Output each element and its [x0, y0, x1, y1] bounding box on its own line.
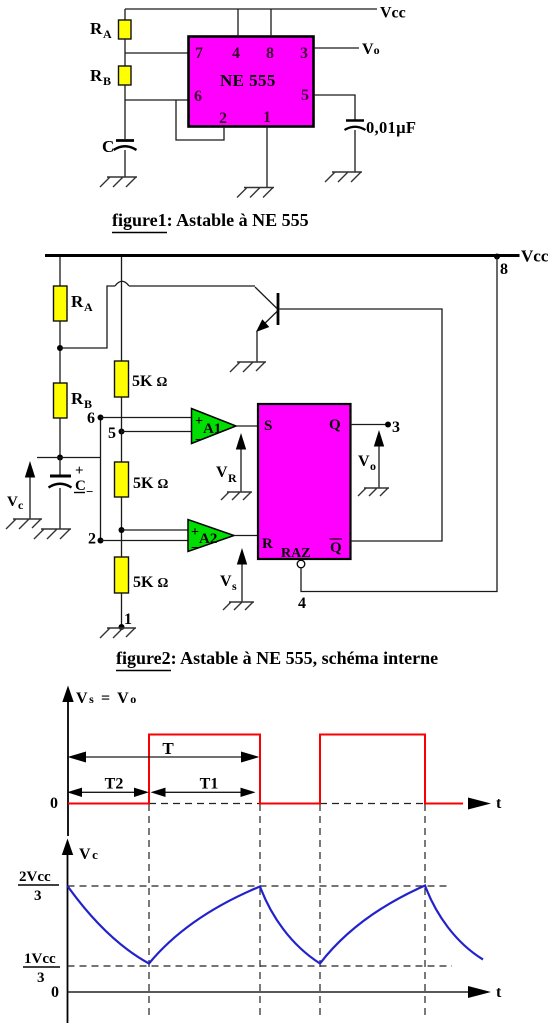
wire node6 to pin 6: [125, 99, 189, 101]
voltage arrow Vo fig2: [378, 445, 380, 488]
wire pin 5 to cap: [314, 95, 355, 120]
resistor 5K 2: [115, 462, 129, 497]
wire Q output to node 3: [351, 424, 389, 426]
svg-text:−: −: [195, 433, 203, 448]
ground below Vs: [223, 602, 254, 610]
svg-text:8: 8: [266, 45, 274, 62]
node 5 dot: [119, 429, 125, 435]
svg-text:T1: T1: [200, 776, 219, 793]
ground below Vc arrow: [6, 519, 42, 529]
svg-text:1: 1: [263, 109, 271, 126]
svg-text:t: t: [496, 795, 502, 812]
dashed vertical t1: [148, 804, 150, 1016]
resistor RB fig2: [54, 383, 68, 418]
svg-text:8: 8: [500, 261, 508, 278]
wire pin 8 to rail: [270, 9, 272, 37]
svg-text:R: R: [228, 471, 237, 485]
dashed baseline segments graph1: [149, 803, 425, 805]
axis Y graph1: [67, 694, 69, 836]
axis X arrow graph1: [468, 798, 491, 810]
wire Qbar to transistor base: [280, 309, 443, 541]
voltage arrow VR: [240, 447, 242, 492]
wire pin 4 to rail: [237, 9, 239, 37]
ground below C fig1: [100, 177, 137, 187]
svg-text:C: C: [75, 478, 86, 494]
wire RA to RB: [124, 39, 126, 66]
wire C to ground: [124, 150, 126, 177]
dashed vertical t2: [259, 804, 261, 1016]
dimension arrow T: [80, 756, 248, 758]
svg-text:5: 5: [108, 425, 116, 442]
wire rail to RA: [124, 9, 126, 20]
svg-text:V: V: [216, 464, 228, 481]
svg-text:Q: Q: [330, 540, 342, 556]
latch box RS: [258, 404, 351, 559]
svg-text:2: 2: [88, 531, 96, 548]
dashed level 1Vcc/3: [68, 965, 453, 967]
wire Vcc rail fig2: [45, 254, 520, 257]
svg-text:5K Ω: 5K Ω: [133, 574, 168, 591]
svg-text:0: 0: [51, 984, 59, 1001]
wire RAZ pin 4 to rail: [301, 257, 497, 592]
resistor 5K 1: [115, 361, 129, 397]
wire 0,01uF to ground: [354, 130, 356, 172]
wire 5K2 to 5K3: [121, 497, 123, 557]
svg-text:0,01µF: 0,01µF: [366, 118, 416, 137]
svg-text:1: 1: [124, 611, 132, 628]
wire 5K3 to ground node 1: [121, 593, 123, 627]
svg-text:V: V: [7, 494, 18, 510]
wire RA to RB fig2: [59, 321, 61, 383]
node 1 dot: [119, 624, 125, 630]
wire node7 to pin 7: [125, 52, 189, 54]
dimension arrow T1: [159, 791, 247, 793]
svg-text:+: +: [191, 525, 199, 540]
axis Y graph2: [67, 848, 69, 1023]
wire pin 1 to ground: [266, 127, 268, 187]
svg-text:S: S: [264, 418, 272, 434]
svg-text:o: o: [370, 459, 376, 473]
svg-text:+: +: [75, 463, 84, 479]
wire C to ground fig2: [59, 488, 61, 529]
svg-text:Q: Q: [329, 417, 341, 433]
resistor RA fig2: [54, 286, 68, 321]
svg-text:7: 7: [195, 45, 203, 62]
resistor 5K 3: [115, 557, 129, 593]
svg-text:NE 555: NE 555: [220, 71, 276, 90]
svg-text:s: s: [232, 579, 237, 593]
transistor Q1: [277, 293, 280, 325]
op-amp comparator A2: [188, 520, 234, 552]
dimension arrow T2: [76, 791, 140, 793]
svg-text:A2: A2: [199, 531, 217, 547]
svg-text:R: R: [71, 389, 84, 408]
voltage arrow Vs: [241, 562, 243, 602]
dashed vertical t3: [319, 804, 321, 1016]
svg-text:t: t: [496, 984, 502, 1001]
wire node6 to node2 vertical: [100, 418, 102, 541]
svg-text:R: R: [90, 19, 103, 38]
wire cap node horizontal: [37, 457, 101, 459]
wire A2 output to R: [234, 535, 258, 537]
svg-text:Vo: Vo: [362, 41, 380, 58]
svg-text:5K Ω: 5K Ω: [132, 373, 167, 390]
op-amp comparator A1: [192, 409, 237, 444]
node pin 8 junction dot: [494, 254, 500, 260]
svg-text:5: 5: [301, 87, 309, 104]
node 2 dot: [98, 538, 104, 544]
wire Vcc rail fig1: [125, 8, 377, 10]
svg-text:6: 6: [194, 88, 202, 105]
svg-text:3: 3: [37, 970, 45, 986]
node cap junction dot: [57, 455, 63, 461]
svg-text:V: V: [220, 573, 232, 590]
wire discharge branch to transistor collector: [60, 281, 255, 348]
node 3 dot: [385, 422, 391, 428]
waveform Vc exponential: [68, 886, 484, 964]
IC NE555 U1: [189, 37, 314, 127]
wire divider low to A2 plus: [122, 529, 189, 531]
wire pin 3 output: [314, 47, 359, 49]
svg-text:6: 6: [87, 410, 95, 427]
wire pin 2 to pin 6 net: [176, 100, 224, 140]
svg-text:A: A: [103, 27, 112, 41]
svg-text:c: c: [18, 498, 24, 512]
wire node5 to A1 minus: [122, 431, 192, 433]
node RAZ bubble: [297, 560, 305, 568]
svg-text:T: T: [162, 739, 174, 758]
svg-text:5K Ω: 5K Ω: [133, 475, 168, 492]
node RA-RB junction dot: [57, 345, 63, 351]
ground below 0,01uF: [325, 172, 362, 182]
svg-text:2Vcc: 2Vcc: [19, 869, 51, 885]
resistor RB fig1: [119, 66, 132, 85]
svg-text:−: −: [191, 541, 199, 556]
wire rail to RA fig2: [59, 257, 61, 286]
svg-text:4: 4: [298, 595, 306, 612]
svg-text:V: V: [358, 453, 370, 470]
svg-text:0: 0: [50, 795, 58, 812]
svg-text:3: 3: [34, 888, 42, 904]
wire rail to 5K divider: [121, 257, 123, 361]
svg-text:C: C: [102, 137, 114, 156]
wire RB to cap node: [59, 418, 61, 458]
wire emitter to ground: [256, 331, 258, 363]
voltage arrow Vc: [29, 476, 31, 519]
wire RB to C: [124, 85, 126, 139]
svg-text:2: 2: [219, 110, 227, 127]
node divider low dot: [119, 527, 125, 533]
svg-text:R: R: [90, 66, 103, 85]
capacitor C fig1: [116, 139, 134, 142]
ground below C fig2: [34, 529, 71, 539]
svg-text:A: A: [84, 300, 93, 314]
node 6 dot: [98, 415, 104, 421]
svg-text:1Vcc: 1Vcc: [24, 951, 56, 967]
capacitor 0,01uF: [346, 119, 364, 122]
dashed vertical t4: [424, 804, 426, 1016]
svg-text:RAZ: RAZ: [281, 546, 311, 561]
wire 5K1 to 5K2: [121, 397, 123, 462]
svg-text:B: B: [103, 74, 111, 88]
svg-text:+: +: [195, 414, 203, 429]
ground below VR: [221, 492, 252, 500]
svg-text:Vcc: Vcc: [521, 247, 549, 266]
svg-text:A1: A1: [203, 421, 221, 437]
wire node2 to A2 minus: [101, 540, 189, 542]
svg-text:3: 3: [392, 419, 400, 436]
svg-text:figure2: Astable à NE 555, sch: figure2: Astable à NE 555, schéma intern…: [116, 648, 438, 668]
ground below pin 1: [237, 188, 274, 198]
svg-text:R: R: [71, 292, 84, 311]
svg-text:R: R: [262, 536, 273, 552]
ground below transistor: [230, 362, 266, 372]
svg-text:Vc: Vc: [79, 846, 98, 863]
svg-text:figure1: Astable à NE 555: figure1: Astable à NE 555: [112, 210, 309, 230]
resistor RA fig1: [119, 20, 132, 39]
axis X graph2: [68, 991, 470, 993]
svg-text:3: 3: [300, 45, 308, 62]
ground below node 1: [100, 628, 136, 638]
capacitor C fig2: [59, 458, 61, 476]
wire A1 output to S: [236, 425, 258, 427]
svg-text:T2: T2: [105, 776, 124, 793]
ground below Vo: [358, 488, 389, 496]
svg-text:Vcc: Vcc: [380, 5, 406, 22]
svg-text:Vs = Vo: Vs = Vo: [76, 690, 138, 707]
svg-text:−: −: [86, 484, 93, 499]
waveform Vs square wave: [68, 735, 463, 804]
dashed level 2Vcc/3: [68, 885, 451, 887]
wire node6 to A1 plus: [101, 417, 192, 419]
svg-text:B: B: [84, 397, 92, 411]
svg-text:4: 4: [232, 45, 240, 62]
